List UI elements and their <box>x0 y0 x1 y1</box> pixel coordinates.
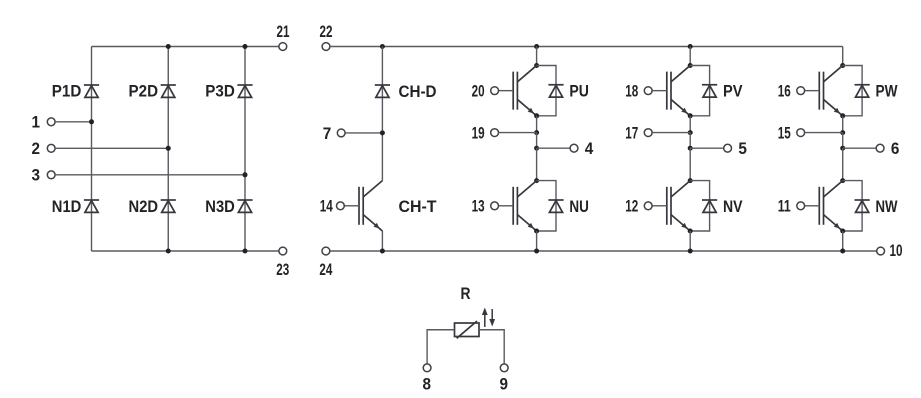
thermistor arrow down <box>489 309 495 327</box>
svg-text:14: 14 <box>320 198 334 216</box>
svg-text:5: 5 <box>738 140 747 158</box>
svg-text:16: 16 <box>778 83 791 101</box>
transistor NU <box>513 181 536 231</box>
wire phase U emitter to bus <box>536 231 538 251</box>
wire NV gate <box>652 205 667 207</box>
wire phase W mid 3 <box>842 148 844 180</box>
wire phase U mid 3 <box>536 148 538 180</box>
svg-text:24: 24 <box>319 261 333 279</box>
node phase U output junction <box>534 146 539 151</box>
svg-text:P3D: P3D <box>205 83 235 101</box>
node phase W lower emitter <box>840 229 845 234</box>
wire thermistor right <box>479 330 504 364</box>
terminal 23 <box>279 247 287 255</box>
diode N3D <box>237 200 252 212</box>
wire pin 17 <box>652 132 690 134</box>
wire output 4 <box>537 147 571 149</box>
node phase V upper emitter <box>688 113 693 118</box>
svg-text:R: R <box>461 285 471 303</box>
junction top bus / phase U leg <box>534 44 539 49</box>
svg-text:6: 6 <box>891 140 900 158</box>
diode NV freewheel <box>702 200 717 212</box>
transistor CH-T <box>359 181 382 231</box>
node phase W lower collector <box>840 178 845 183</box>
svg-text:19: 19 <box>472 125 485 143</box>
svg-text:21: 21 <box>277 23 290 41</box>
terminal 21 <box>279 43 287 51</box>
svg-text:PV: PV <box>723 83 743 101</box>
svg-text:PU: PU <box>569 83 589 101</box>
diode P3D <box>237 85 252 97</box>
resistor R diagonal stroke <box>457 321 477 338</box>
wire input 3 <box>55 174 245 176</box>
terminal output phase U <box>570 144 578 152</box>
terminal 17 <box>644 129 652 137</box>
resistor R thermistor body <box>455 323 480 337</box>
wire PV gate <box>652 90 667 92</box>
diode N1D <box>84 200 99 212</box>
svg-text:P1D: P1D <box>52 83 82 101</box>
transistor NV <box>667 181 690 231</box>
diode PU freewheel <box>548 85 563 97</box>
wire NW gate <box>805 205 820 207</box>
wire inverter bottom bus <box>330 250 877 252</box>
svg-text:CH-D: CH-D <box>399 83 437 101</box>
svg-text:PW: PW <box>876 83 898 101</box>
diode P2D <box>161 85 176 97</box>
node phase V lower emitter <box>688 229 693 234</box>
terminal 1 <box>47 118 55 126</box>
wire output 5 <box>690 147 724 149</box>
terminal output phase W <box>876 144 884 152</box>
junction bottom bus / phase V <box>688 249 693 254</box>
svg-text:8: 8 <box>423 376 432 394</box>
wire rectifier leg 2 <box>167 47 169 252</box>
transistor PV <box>667 65 690 115</box>
wire PU gate <box>498 90 513 92</box>
wire PW gate <box>805 90 820 92</box>
svg-text:12: 12 <box>625 198 638 216</box>
terminal 15 <box>797 129 805 137</box>
terminal 13 <box>491 202 499 210</box>
wire rectifier top bus <box>92 46 280 48</box>
terminal 16 <box>797 87 805 95</box>
node phase U lower emitter <box>534 229 539 234</box>
wire rectifier leg 1 <box>91 47 93 252</box>
node phase U kelvin junction <box>534 130 539 135</box>
wire PU diode branch <box>537 66 556 116</box>
svg-text:N2D: N2D <box>129 198 159 216</box>
wire NU gate <box>498 205 513 207</box>
svg-text:13: 13 <box>472 198 485 216</box>
svg-text:18: 18 <box>625 83 638 101</box>
svg-text:15: 15 <box>778 125 791 143</box>
svg-text:22: 22 <box>320 23 333 41</box>
wire phase W emitter to bus <box>842 231 844 251</box>
transistor NW <box>819 181 842 231</box>
transistor PU <box>513 65 536 115</box>
wire pin 19 <box>499 132 537 134</box>
wire phase V emitter to bus <box>689 231 691 251</box>
terminal 8 <box>423 364 431 372</box>
wire phase V mid 1 <box>689 116 691 133</box>
svg-text:NV: NV <box>723 198 743 216</box>
node input 2 junction <box>166 146 171 151</box>
wire chopper emitter to bus <box>381 231 383 251</box>
wire NU diode branch <box>537 181 556 231</box>
svg-text:NW: NW <box>876 198 898 216</box>
wire pin 7 <box>345 132 382 134</box>
node phase V lower collector <box>688 178 693 183</box>
thermistor arrow up <box>482 308 488 328</box>
svg-text:23: 23 <box>276 261 289 279</box>
svg-text:4: 4 <box>585 140 594 158</box>
diode CH-D <box>375 85 390 97</box>
svg-text:N3D: N3D <box>205 198 235 216</box>
node phase V output junction <box>688 146 693 151</box>
wire phase V mid 2 <box>689 133 691 149</box>
diode N2D <box>161 200 176 212</box>
terminal 10 <box>877 247 885 255</box>
wire inverter top bus <box>330 46 843 48</box>
junction top bus / leg 2 <box>166 44 171 49</box>
svg-text:11: 11 <box>778 198 791 216</box>
wire phase U collector drop <box>536 47 538 66</box>
terminal 12 <box>644 202 652 210</box>
wire PV diode branch <box>690 66 709 116</box>
node phase W upper emitter <box>840 113 845 118</box>
wire NV diode branch <box>690 181 709 231</box>
junction bottom bus / leg 3 <box>243 249 248 254</box>
wire CH-T gate <box>344 205 359 207</box>
svg-text:NU: NU <box>569 198 589 216</box>
junction bottom bus / phase W <box>840 249 845 254</box>
node phase U lower collector <box>534 178 539 183</box>
svg-text:2: 2 <box>32 140 41 158</box>
terminal 18 <box>644 87 652 95</box>
wire phase V mid 3 <box>689 148 691 180</box>
transistor PW <box>819 65 842 115</box>
node phase V upper collector <box>688 63 693 68</box>
terminal 20 <box>491 87 499 95</box>
diode NU freewheel <box>548 200 563 212</box>
wire input 1 <box>55 121 91 123</box>
node pin 7 junction <box>380 130 385 135</box>
diode PV freewheel <box>702 85 717 97</box>
svg-text:1: 1 <box>32 114 41 132</box>
svg-text:3: 3 <box>32 167 41 185</box>
wire phase W mid 2 <box>842 133 844 149</box>
wire NW diode branch <box>843 181 862 231</box>
wire chopper leg upper <box>381 47 383 181</box>
node phase W kelvin junction <box>840 130 845 135</box>
terminal 22 <box>322 43 330 51</box>
node input 1 junction <box>89 119 94 124</box>
node phase U upper emitter <box>534 113 539 118</box>
terminal 2 <box>47 144 55 152</box>
wire phase V collector drop <box>689 47 691 66</box>
junction top bus / chopper leg <box>380 44 385 49</box>
terminal 7 <box>337 129 345 137</box>
junction bottom bus / leg 2 <box>166 249 171 254</box>
wire pin 15 <box>805 132 843 134</box>
wire phase U mid 2 <box>536 133 538 149</box>
node phase V kelvin junction <box>688 130 693 135</box>
junction bottom bus / phase U <box>534 249 539 254</box>
svg-text:P2D: P2D <box>129 83 159 101</box>
terminal 11 <box>797 202 805 210</box>
svg-text:17: 17 <box>625 125 638 143</box>
diode PW freewheel <box>855 85 870 97</box>
wire phase W mid 1 <box>842 116 844 133</box>
junction top bus / phase V leg <box>688 44 693 49</box>
svg-text:20: 20 <box>472 83 485 101</box>
svg-text:7: 7 <box>323 125 332 143</box>
wire phase W collector drop <box>842 47 844 66</box>
terminal 24 <box>322 247 330 255</box>
wire PW diode branch <box>843 66 862 116</box>
wire output 6 <box>843 147 877 149</box>
node input 3 junction <box>243 172 248 177</box>
svg-text:9: 9 <box>500 376 509 394</box>
terminal output phase V <box>724 144 732 152</box>
junction bottom bus / chopper leg <box>380 249 385 254</box>
terminal 19 <box>491 129 499 137</box>
wire thermistor left <box>427 330 454 364</box>
wire input 2 <box>55 147 168 149</box>
node phase U upper collector <box>534 63 539 68</box>
diode P1D <box>84 85 99 97</box>
svg-text:CH-T: CH-T <box>399 198 437 216</box>
svg-text:10: 10 <box>890 242 903 260</box>
wire rectifier leg 3 <box>244 47 246 252</box>
node phase W output junction <box>840 146 845 151</box>
terminal 3 <box>47 171 55 179</box>
diode NW freewheel <box>855 200 870 212</box>
wire phase U mid 1 <box>536 116 538 133</box>
svg-text:N1D: N1D <box>52 198 82 216</box>
node phase W upper collector <box>840 63 845 68</box>
terminal 14 <box>337 202 345 210</box>
terminal 9 <box>500 364 508 372</box>
junction top bus / leg 3 <box>243 44 248 49</box>
wire rectifier bottom bus <box>92 250 280 252</box>
